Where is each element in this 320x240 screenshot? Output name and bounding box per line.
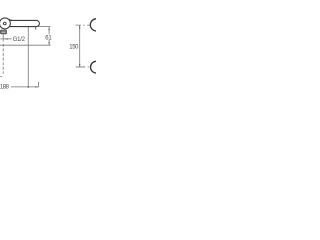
vertical extension line bbox=[27, 27, 29, 87]
svg-text:188: 188 bbox=[0, 85, 10, 91]
dimension 188 right arrowhead bbox=[35, 86, 38, 87]
wall reference line bbox=[0, 44, 51, 46]
lower supply connection circle bbox=[91, 61, 103, 73]
extension line at spout tip bbox=[38, 82, 40, 87]
dimension 61 line lower segment bbox=[48, 40, 50, 45]
lower supply centerline dash-dot bbox=[76, 66, 91, 68]
svg-text:61: 61 bbox=[45, 36, 52, 42]
faucet spout body bbox=[9, 20, 39, 26]
upper supply connection circle bbox=[90, 19, 102, 31]
svg-text:150: 150 bbox=[69, 45, 79, 51]
dimension 188 junction marker bbox=[27, 86, 30, 88]
svg-text:G1/2: G1/2 bbox=[13, 37, 26, 43]
G1/2 leader arrowhead bbox=[5, 38, 8, 39]
dimension 150 down arrowhead bbox=[79, 64, 80, 67]
G1/2 leader line bbox=[0, 38, 11, 40]
inlet axis centerline solid part bbox=[2, 34, 4, 41]
inlet axis centerline dashed part bbox=[2, 44, 4, 74]
upper supply centerline dash-dot bbox=[76, 24, 91, 26]
dimension 150 up arrowhead bbox=[79, 25, 80, 28]
handle hub inner circle bbox=[3, 22, 6, 25]
dimension 61 down arrowhead bbox=[48, 42, 49, 45]
threaded inlet nipple bbox=[1, 30, 7, 34]
small dash below centerline bbox=[0, 76, 2, 78]
spout neck top curve bbox=[8, 19, 12, 20]
dimension 61 up arrowhead bbox=[48, 27, 49, 30]
extension line from spout bottom edge bbox=[38, 26, 50, 28]
faucet head circle bbox=[0, 18, 10, 29]
spout outlet tick bbox=[35, 27, 37, 30]
dimension 188 line bbox=[11, 86, 39, 88]
dimension 61 line upper segment bbox=[48, 27, 50, 34]
dimension 150 line bbox=[79, 25, 81, 67]
